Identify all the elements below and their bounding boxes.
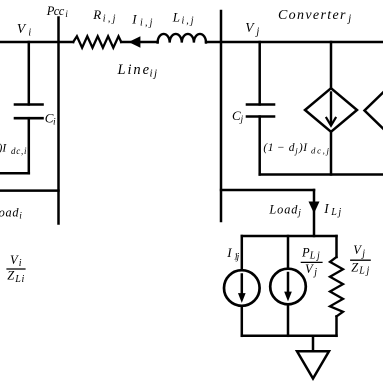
svg-text:V: V [353,243,362,257]
svg-text:ij: ij [150,68,158,80]
svg-text:j: j [312,267,317,278]
svg-text:1: 1 [268,142,274,154]
svg-text:i: i [28,27,31,38]
svg-text:j: j [346,13,351,24]
svg-text:Load: Load [268,202,298,216]
svg-text:i,j: i,j [140,18,153,29]
svg-text:i: i [19,258,22,269]
svg-text:V: V [17,21,27,36]
svg-text:Lj: Lj [309,251,320,262]
svg-text:j: j [254,27,259,38]
svg-text:V: V [10,253,19,267]
svg-text:P: P [301,245,310,259]
svg-text:Lj: Lj [330,207,341,218]
svg-text:I: I [302,142,308,154]
svg-text:I: I [323,201,329,216]
svg-text:j: j [294,146,298,156]
svg-text:Z: Z [351,261,359,275]
svg-text:V: V [245,20,255,35]
svg-text:dc,j: dc,j [311,146,330,156]
svg-text:i: i [65,10,68,20]
svg-text:L: L [172,10,180,25]
svg-text:Load: Load [0,206,19,220]
svg-text:Li: Li [14,274,24,285]
svg-text:d: d [289,142,295,154]
svg-text:): ) [298,142,303,154]
svg-text:i: i [19,212,22,222]
svg-text:Line: Line [117,62,150,78]
svg-text:R: R [92,7,101,22]
svg-text:I: I [131,12,137,27]
svg-text:Lj: Lj [358,266,369,277]
svg-text:)I: )I [0,143,7,155]
svg-text:i,j: i,j [103,14,116,25]
svg-text:i,j: i,j [182,16,194,27]
svg-text:I: I [226,245,232,260]
svg-text:Z: Z [7,269,15,283]
svg-text:i: i [53,118,56,128]
svg-text:1j: 1j [234,253,240,263]
svg-text:Pcc: Pcc [46,4,65,18]
svg-text:dc,i: dc,i [11,146,27,156]
svg-text:Converter: Converter [278,8,346,23]
svg-text:V: V [305,262,314,276]
svg-text:−: − [277,142,285,154]
